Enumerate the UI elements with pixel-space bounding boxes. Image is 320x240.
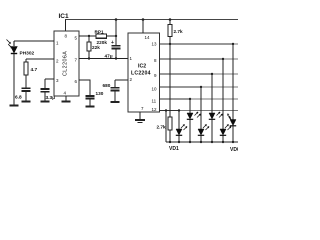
LED VD5 (220, 129, 226, 135)
wire RP1 to V+ drop (107, 35, 117, 37)
node pin5 junction (88, 35, 90, 37)
photodiode PH302 (11, 41, 17, 54)
pin 9 IC2 (154, 73, 157, 78)
svg-text:3.3μ: 3.3μ (46, 95, 56, 101)
node LED VD4 tap (211, 73, 213, 75)
svg-text:8: 8 (65, 34, 68, 39)
wire IC1 pin6 stub (79, 80, 90, 96)
svg-text:RP1: RP1 (95, 30, 105, 35)
wire IC1 pin2 to R1 (26, 58, 54, 60)
svg-text:12: 12 (152, 107, 158, 112)
pin 4 IC1 (64, 91, 67, 96)
ground C1 (21, 101, 30, 103)
pin 6 IC1 (75, 79, 78, 84)
svg-text:11: 11 (152, 99, 157, 104)
svg-text:130: 130 (96, 91, 104, 96)
pin 11 IC2 (152, 99, 157, 104)
light arrows LED VD2 (195, 112, 201, 118)
label PH302 (20, 51, 35, 57)
light arrows LED VD4 (217, 112, 223, 118)
svg-text:4: 4 (64, 91, 67, 96)
node LED VD1 tap (178, 109, 180, 111)
svg-text:9: 9 (154, 73, 157, 78)
pin 10 IC2 (152, 87, 158, 92)
pin 1 IC2 (130, 56, 133, 61)
light arrows into photodiode (7, 40, 13, 49)
label VD1 (169, 146, 179, 152)
svg-text:1: 1 (130, 56, 133, 61)
wire photodiode cathode down (13, 54, 15, 105)
node R2 bottom junction (88, 57, 90, 59)
svg-text:LC2204: LC2204 (131, 71, 151, 77)
wire pin12 drop (165, 111, 167, 143)
LED VD6 (230, 120, 236, 126)
node V+ drop junction on rail (115, 18, 118, 21)
svg-text:22k: 22k (92, 45, 100, 50)
wire pin13 line (160, 43, 234, 45)
node pin12 drop junction (165, 109, 167, 111)
svg-text:1: 1 (56, 41, 59, 46)
svg-text:13: 13 (152, 42, 158, 47)
capacitor C2 3.3u (40, 88, 49, 90)
light arrows LED VD5 (225, 125, 231, 131)
pin 1 IC1 (56, 41, 59, 46)
resistor R2 22k (88, 36, 90, 42)
svg-text:2: 2 (130, 77, 133, 82)
svg-text:6: 6 (75, 79, 78, 84)
node pin14 rail junction (142, 18, 145, 21)
ground IC1 pin4 (61, 101, 70, 103)
svg-text:2.7k: 2.7k (157, 125, 167, 130)
ground IC2 pin7 (135, 119, 145, 121)
pin 12 IC2 (152, 107, 158, 112)
light arrows LED VD3 (203, 125, 209, 131)
wire pin10 line (160, 86, 202, 88)
wire pin8 line (160, 58, 224, 60)
wire pin11 line (160, 98, 191, 100)
svg-text:3: 3 (56, 78, 59, 83)
wire bottom cathode rail (166, 141, 238, 143)
pin 5 IC1 (75, 36, 78, 41)
svg-text:VD1: VD1 (169, 146, 179, 152)
wire R1 to C1 (25, 75, 27, 88)
svg-text:4.7: 4.7 (31, 67, 38, 73)
wire pin12 line (160, 110, 180, 112)
LED VD3 (198, 129, 204, 135)
wire R4 to bottom rail (169, 130, 171, 142)
pin 2 IC2 (130, 77, 133, 82)
svg-text:7: 7 (141, 106, 144, 111)
potentiometer RP1 220k (89, 35, 96, 37)
node C3 bottom junction (115, 57, 117, 59)
wire top V+ rail (65, 19, 238, 21)
pin 14 IC2 (145, 35, 151, 40)
node R3 pin13 junction (169, 43, 171, 45)
resistor R3 2.7k top (169, 20, 171, 25)
svg-text:8: 8 (154, 58, 157, 63)
svg-text:47μ: 47μ (105, 54, 113, 59)
capacitor C1 6.8 (21, 87, 30, 89)
LED VD2 (187, 113, 193, 119)
node LED VD3 tap (200, 86, 202, 88)
ground C5 (110, 101, 119, 103)
wire LED VD1 column (178, 111, 180, 143)
light arrows LED VD6 (228, 113, 233, 121)
svg-text:2.7k: 2.7k (174, 29, 184, 34)
ground C4 (85, 106, 94, 108)
capacitor C5 680 (110, 87, 119, 89)
resistor R1 4.7 (25, 59, 27, 62)
IC2 box LC2204 (128, 33, 160, 112)
svg-text:14: 14 (145, 35, 151, 40)
svg-text:5: 5 (75, 36, 78, 41)
svg-text:VD6: VD6 (230, 147, 238, 152)
pin 7 IC1 (75, 58, 78, 63)
pin 13 IC2 (152, 42, 158, 47)
wire IC1 pin7 to IC2 pin1 (79, 58, 128, 60)
wire LED VD5 column (222, 59, 224, 142)
capacitor C4 130 (86, 95, 95, 97)
wire C3 to signal wire (115, 49, 117, 59)
svg-text:PH302: PH302 (20, 51, 35, 57)
svg-text:CL2206A: CL2206A (63, 51, 69, 76)
svg-text:10: 10 (152, 87, 158, 92)
wire C1 to ground (25, 92, 27, 102)
node rail junction R3 (169, 18, 172, 21)
wire IC1 pin5 stub (79, 35, 89, 37)
LED VD4 (209, 113, 215, 119)
pin 7 IC2 (141, 106, 144, 111)
svg-text:IC1: IC1 (59, 13, 70, 20)
light arrows LED VD1 (181, 125, 187, 131)
pin 8 IC2 (154, 58, 157, 63)
svg-text:IC2: IC2 (138, 64, 146, 70)
wire C5 to ground (114, 91, 116, 102)
wire pin9 line (160, 73, 213, 75)
label VD6 (230, 147, 240, 153)
svg-text:7: 7 (75, 58, 78, 63)
node rail dots on bottom rail (169, 141, 234, 143)
wire IC1 pin3 to C2 (45, 78, 54, 80)
node LED VD5 tap (222, 58, 224, 60)
label IC1 (59, 13, 70, 20)
wire LED VD4 column (211, 74, 213, 142)
wire IC1 top pin to rail (65, 20, 67, 32)
IC1 box CL2206A (54, 31, 79, 96)
capacitor C3 polarity mark (111, 40, 114, 46)
wire R3 to pin13 line (169, 37, 171, 45)
pin 2 IC1 (56, 59, 59, 64)
node RP1 junction (115, 35, 117, 37)
wire C2 to ground (44, 92, 46, 101)
node LED VD6 tap (232, 43, 234, 45)
wire LED VD2 column (189, 99, 191, 142)
svg-text:220k: 220k (97, 40, 108, 45)
pin 3 IC1 (56, 78, 59, 83)
LED VD1 (176, 129, 182, 135)
wire IC1 pin4 to ground (65, 96, 67, 101)
wire IC2 pin14 to rail (142, 20, 144, 34)
pin 8 IC1 (65, 34, 68, 39)
ground C2 (40, 101, 49, 103)
svg-text:680: 680 (103, 83, 111, 88)
wire IC2 pin7 to ground (139, 112, 141, 120)
ground photodiode (10, 105, 19, 107)
wire IC2 pin2 to C5 (115, 79, 128, 81)
wire V+ drop to C3 (115, 20, 117, 46)
node LED VD2 tap (189, 98, 191, 100)
svg-text:6.8: 6.8 (15, 95, 22, 101)
svg-text:2: 2 (56, 59, 59, 64)
capacitor C3 47u (111, 45, 120, 47)
wire IC1 pin1 to photodiode (14, 40, 54, 42)
resistor R4 2.7k bottom (168, 117, 172, 130)
wire C4 to ground (89, 99, 91, 106)
wire LED VD3 column (200, 87, 202, 142)
wire LED VD6 column (232, 44, 234, 142)
wire bus down from pin13 (169, 44, 171, 117)
